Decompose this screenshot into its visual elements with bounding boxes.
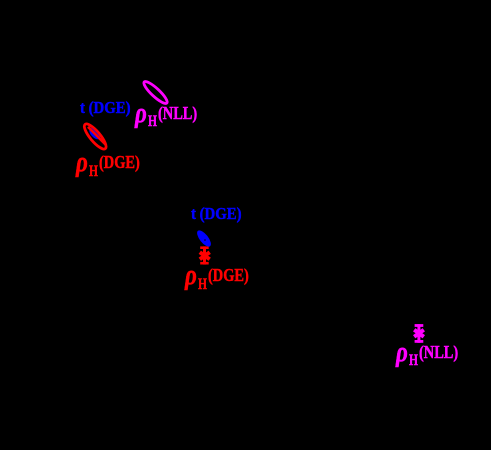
red DGE contour ellipse (left)	[81, 121, 109, 152]
red error-bar marker with X (middle group)	[200, 246, 210, 264]
black pinhole in blue ellipse	[204, 239, 206, 241]
red major-axis diagonal line of DGE contour	[88, 127, 106, 145]
magenta NLL contour ellipse (top)	[141, 79, 169, 106]
label t(DGE) top-left (blue)	[80, 99, 131, 116]
label rho_H(DGE) left (red)	[77, 155, 147, 185]
label t(DGE) middle (blue)	[191, 205, 242, 222]
magenta error-bar marker with X (right group)	[414, 324, 424, 343]
blue filled ellipse marker (middle group)	[195, 228, 214, 249]
label rho_H(NLL) top (magenta)	[136, 105, 206, 135]
blue filled ellipse marker inside red contour	[87, 126, 102, 141]
label rho_H(DGE) middle (red)	[186, 268, 256, 298]
label rho_H(NLL) right (magenta)	[397, 345, 467, 375]
